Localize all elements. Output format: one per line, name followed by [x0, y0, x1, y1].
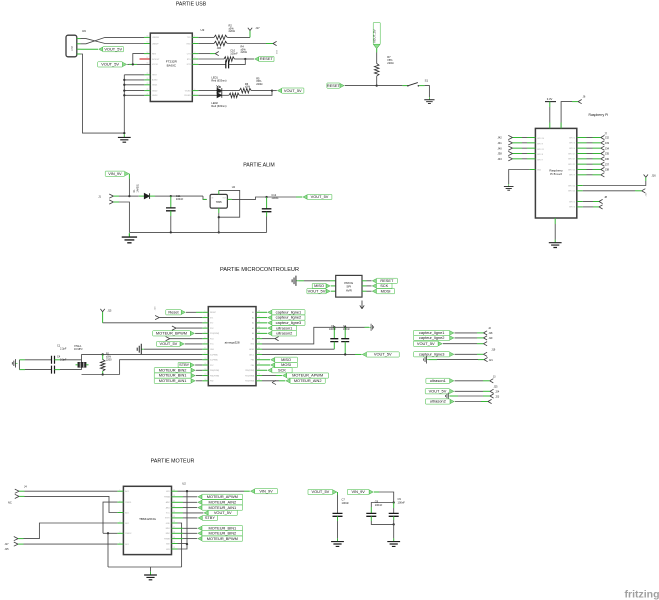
wire CTS to pin: [198, 53, 210, 55]
svg-text:2200: 2200: [106, 358, 112, 361]
svg-text:J37: J37: [605, 162, 610, 166]
ground RPi bottom: [549, 240, 562, 248]
wire R5 to junction: [239, 91, 272, 96]
svg-text:5: 5: [120, 532, 121, 534]
svg-text:24: 24: [173, 489, 175, 491]
ground moteur: [150, 567, 152, 572]
junction C8 branch: [393, 501, 395, 503]
svg-text:AGND: AGND: [152, 79, 158, 82]
svg-text:PGND2: PGND2: [125, 533, 131, 535]
svg-text:BIN2: BIN2: [166, 533, 170, 535]
wire RXD to R3: [198, 43, 214, 45]
wire row10 xtal2: [120, 360, 203, 375]
wire GPIO14 to J16 pin: [577, 185, 583, 187]
svg-text:VIN_9V: VIN_9V: [351, 489, 365, 494]
svg-text:VOUT_5V: VOUT_5V: [101, 62, 119, 67]
svg-text:RESET: RESET: [327, 83, 341, 88]
svg-text:Xx(PWM): Xx(PWM): [210, 354, 218, 356]
svg-text:GPIO 9: GPIO 9: [569, 175, 575, 177]
svg-text:Red (633nm): Red (633nm): [211, 79, 226, 83]
svg-text:STBY: STBY: [205, 515, 216, 520]
svg-text:GND1: GND1: [152, 85, 157, 87]
junction VM node: [186, 490, 188, 492]
wire gnd hdr A: [428, 359, 437, 361]
svg-text:MOTEUR_AIN1: MOTEUR_AIN1: [159, 378, 187, 383]
wire DTR to C10: [198, 63, 226, 65]
svg-text:VOUT_5V: VOUT_5V: [104, 46, 122, 51]
svg-text:VCCIO: VCCIO: [152, 64, 159, 66]
junction bus dots: [123, 79, 125, 81]
wire node to switch: [377, 85, 403, 87]
net label RESET switch: [340, 83, 344, 87]
svg-text:7805: 7805: [216, 200, 222, 204]
svg-text:2: 2: [194, 42, 195, 44]
svg-text:VOUT_5V: VOUT_5V: [372, 29, 376, 43]
junction cap C5 top: [333, 326, 335, 328]
ground RPi left: [504, 184, 514, 190]
svg-text:MISO: MISO: [281, 357, 291, 362]
svg-text:BO1: BO1: [125, 544, 129, 546]
net label RESET usb: [245, 58, 254, 60]
net label capteur_ligne3 hdr: [450, 352, 454, 356]
svg-text:2: 2: [120, 500, 121, 502]
svg-text:3: 3: [194, 52, 195, 54]
junction C12 node: [265, 196, 267, 198]
wire label to R7: [376, 49, 378, 53]
svg-text:J16: J16: [652, 174, 657, 178]
svg-text:J23: J23: [495, 395, 500, 398]
svg-text:Red (633nm): Red (633nm): [211, 104, 226, 108]
svg-text:24: 24: [147, 78, 149, 80]
svg-text:VM1: VM1: [166, 491, 170, 493]
svg-text:J38: J38: [605, 168, 610, 172]
capacitor C6: [344, 327, 346, 338]
svg-text:MOSI: MOSI: [281, 362, 291, 367]
svg-text:GPIO 14: GPIO 14: [568, 185, 575, 187]
svg-text:6: 6: [120, 542, 121, 544]
svg-text:ultrason2: ultrason2: [276, 331, 292, 336]
svg-text:GND: GND: [250, 344, 255, 346]
svg-text:6: 6: [194, 89, 195, 91]
pin J6 chevron: [578, 100, 582, 104]
IC PROG SPI AVR: [336, 275, 362, 297]
svg-text:22: 22: [173, 501, 175, 503]
ground reset switch: [424, 97, 434, 103]
wire row4 open pin: [176, 327, 202, 329]
svg-text:GND2: GND2: [152, 90, 157, 92]
svg-text:U3: U3: [201, 28, 205, 32]
svg-text:14: 14: [173, 542, 175, 544]
svg-text:MOTEUR_BIN2: MOTEUR_BIN2: [159, 367, 187, 372]
pin J32: [577, 137, 587, 139]
svg-text:PARTIE MICROCONTROLEUR: PARTIE MICROCONTROLEUR: [220, 267, 299, 273]
svg-text:22: 22: [258, 342, 260, 344]
svg-text:21: 21: [173, 506, 175, 508]
svg-text:16: 16: [147, 52, 149, 54]
wire R4 to reset node: [234, 58, 245, 60]
svg-text:XT1: XT1: [210, 317, 213, 319]
svg-text:25: 25: [147, 73, 149, 75]
USB connector U9: [66, 35, 77, 57]
svg-text:GPIO 3: GPIO 3: [569, 143, 575, 145]
wire C10 up to reset node: [229, 59, 246, 64]
net label RESET isp: [362, 280, 367, 282]
wire USB D- to FT232 USBDP (crossover): [81, 37, 145, 43]
svg-text:J25: J25: [494, 385, 499, 388]
net label MOTEUR_BIN2 moteur: [178, 532, 184, 534]
svg-text:20: 20: [258, 353, 260, 355]
svg-text:220Ω: 220Ω: [256, 82, 262, 86]
svg-text:capteur_ligne3: capteur_ligne3: [419, 351, 445, 356]
wire crystal vertical: [81, 354, 83, 369]
pin J37: [577, 163, 587, 165]
net label STBY moteur: [178, 517, 184, 519]
wire C7 to gnd: [337, 516, 339, 521]
junction PGND: [107, 532, 109, 534]
svg-text:GPIO 27: GPIO 27: [568, 159, 575, 161]
svg-text:19: 19: [173, 516, 175, 518]
wire row9 AVCC to VOUT label: [262, 353, 355, 355]
net label MOTEUR_AIN2 mcu: [262, 380, 279, 382]
wire bottom cap line: [19, 369, 25, 371]
svg-text:J15: J15: [5, 548, 10, 551]
vertical net label VOUT_5V reset pullup: [373, 44, 380, 49]
net label ultrason1 mcu: [262, 327, 267, 329]
svg-text:VOUT_5V: VOUT_5V: [429, 388, 447, 393]
svg-text:16 MHz: 16 MHz: [74, 348, 83, 351]
svg-text:19: 19: [258, 358, 260, 360]
resistor R4: [224, 57, 234, 62]
capacitor C1: [52, 356, 55, 364]
svg-text:3: 3: [205, 321, 206, 323]
svg-text:J42: J42: [498, 136, 503, 140]
svg-text:MOTEUR_AIN2: MOTEUR_AIN2: [294, 378, 322, 383]
ground USB section: [118, 134, 131, 142]
svg-text:GPIO 8: GPIO 8: [537, 154, 543, 156]
junction reset rail: [376, 84, 378, 86]
wire switch to ground: [419, 85, 425, 87]
svg-text:13: 13: [173, 547, 175, 549]
junction reset node: [244, 58, 246, 60]
resistor R1: [102, 354, 104, 359]
svg-text:1: 1: [205, 311, 206, 313]
net label VOUT_5V hdr B: [450, 389, 454, 393]
ground C8 C9: [387, 538, 400, 546]
svg-text:3: 3: [120, 511, 121, 513]
svg-text:100nF: 100nF: [343, 328, 350, 331]
svg-text:GPIO 22: GPIO 22: [568, 164, 575, 166]
wire regulator OUT: [227, 198, 232, 200]
svg-text:TEST: TEST: [152, 75, 158, 77]
svg-text:J38: J38: [498, 152, 503, 156]
capacitor C8: [370, 507, 372, 513]
net label VOUT_5V to FT232 VCCIO: [123, 62, 127, 66]
wire PGND1: [103, 502, 117, 533]
svg-text:100nF: 100nF: [375, 503, 383, 507]
IC Raspberry Pi B rev2: [535, 128, 576, 218]
svg-text:220Ω: 220Ω: [387, 61, 393, 65]
net label MOTEUR_APWM mcu: [262, 375, 276, 377]
svg-text:Raspberry Pi: Raspberry Pi: [589, 113, 609, 117]
net label VOUT_5V hdr A: [438, 342, 442, 346]
net label VIN_9V moteur: [250, 489, 254, 493]
svg-text:J40: J40: [498, 146, 503, 150]
svg-text:MOTEUR_BPWM: MOTEUR_BPWM: [207, 536, 238, 541]
svg-text:±5%: ±5%: [245, 85, 251, 89]
pin J34: [577, 147, 587, 149]
ground mcu left sideways: [137, 344, 144, 355]
svg-text:PGND1: PGND1: [125, 502, 131, 504]
junction VCCIO node: [132, 63, 134, 65]
svg-text:J24: J24: [495, 391, 500, 394]
svg-text:A2: A2: [252, 322, 254, 325]
svg-text:7: 7: [205, 342, 206, 344]
net label VIN_9V alim: [125, 172, 129, 176]
svg-text:18: 18: [258, 363, 260, 365]
FT232 ground bus wires: [124, 74, 144, 76]
svg-text:AIN2: AIN2: [166, 501, 170, 504]
net label VOUT_5V mcu: [180, 342, 184, 346]
wire row8 to C5: [262, 348, 334, 350]
svg-text:J4B: J4B: [217, 47, 222, 50]
regulator GND pin wire: [218, 208, 220, 213]
pin chevron CTS: [215, 52, 219, 56]
svg-text:PD4: PD4: [210, 338, 214, 340]
net label VOUT_5V from USB VBUS: [81, 48, 99, 50]
net label MOTEUR_BIN1: [191, 373, 195, 377]
svg-text:GPIO 10: GPIO 10: [537, 138, 544, 140]
net label capteur_ligne3 mcu: [262, 322, 267, 324]
svg-text:STBY: STBY: [165, 518, 170, 520]
svg-text:1: 1: [194, 36, 195, 38]
svg-text:15: 15: [173, 537, 175, 539]
svg-text:17: 17: [173, 527, 175, 529]
junction R1 top: [102, 353, 104, 355]
svg-text:capteur_ligne3: capteur_ligne3: [276, 320, 302, 325]
RPi bottom GND pin: [554, 218, 556, 224]
svg-text:VOUT_5V: VOUT_5V: [308, 288, 326, 293]
wire RTS to R4: [198, 58, 224, 60]
resistor R6: [239, 88, 251, 93]
svg-text:USB: USB: [70, 46, 74, 52]
svg-text:4: 4: [194, 57, 195, 59]
svg-text:J18: J18: [489, 332, 494, 335]
svg-text:6: 6: [205, 337, 206, 339]
pin J17 open header: [249, 31, 251, 38]
wire J4 pin1 to AO1: [25, 490, 118, 492]
svg-text:J19: J19: [491, 348, 496, 351]
wire GND moteur: [178, 523, 182, 567]
svg-text:MOTEUR_BIN2: MOTEUR_BIN2: [209, 530, 237, 535]
net label VIN_9V caps: [369, 490, 373, 494]
net label MOTEUR_BIN1 moteur: [178, 527, 184, 529]
wire C9 to gnd: [393, 516, 395, 520]
svg-text:USBDM: USBDM: [152, 37, 159, 39]
IC U2 TB6612FNG: [123, 486, 171, 554]
net label SCK mcu: [262, 369, 267, 371]
svg-text:J43: J43: [498, 157, 503, 161]
pin J15 up arrow: [102, 312, 104, 323]
net label MOTEUR_AIN1: [191, 379, 195, 383]
svg-text:GPIO 7: GPIO 7: [537, 160, 543, 162]
pin mark row14: [272, 380, 276, 384]
alim ground rail: [129, 231, 266, 233]
wire USB GND down: [81, 54, 125, 133]
svg-text:MOSI: MOSI: [381, 288, 391, 293]
resistor R7: [374, 64, 379, 77]
svg-text:J33: J33: [605, 141, 610, 145]
svg-text:VIN_9V: VIN_9V: [108, 171, 122, 176]
pin J38: [577, 168, 587, 170]
svg-text:capteur_ligne2: capteur_ligne2: [276, 315, 302, 320]
net label VOUT_5V avcc: [362, 352, 366, 356]
ground hdr A: [424, 356, 429, 364]
svg-text:26: 26: [258, 321, 260, 323]
svg-text:U2: U2: [182, 481, 186, 485]
ground bus vertical: [123, 75, 125, 133]
svg-text:AIN1: AIN1: [166, 506, 170, 509]
svg-text:PD2: PD2: [210, 328, 214, 330]
wire J1 pin1 to diode: [119, 195, 129, 197]
svg-text:VM3: VM3: [166, 549, 170, 551]
svg-text:PD3(PWM): PD3(PWM): [210, 333, 219, 335]
svg-text:16: 16: [173, 532, 175, 534]
svg-text:BASIC: BASIC: [167, 63, 177, 67]
capacitor C4: [52, 366, 55, 374]
wire row8 to ground: [144, 348, 202, 350]
svg-text:21: 21: [258, 347, 260, 349]
wire VIN to C9: [374, 491, 379, 493]
svg-text:J35: J35: [605, 152, 610, 156]
svg-text:GND: GND: [537, 169, 542, 171]
svg-text:17: 17: [147, 57, 149, 59]
svg-text:RESET: RESET: [260, 56, 274, 61]
FT232 pin stubs left: [144, 74, 150, 76]
svg-text:24: 24: [258, 332, 260, 334]
net label MOTEUR_AIN2 moteur: [178, 501, 184, 503]
junction C11 node: [170, 195, 172, 197]
capacitor C5: [333, 327, 335, 338]
svg-text:AVR: AVR: [346, 288, 353, 292]
svg-text:TXLED: TXLED: [184, 90, 191, 92]
regulator U4 7805: [210, 194, 227, 208]
red wire 3V3OUT: [140, 58, 151, 60]
wire R3 to pin: [227, 43, 266, 45]
svg-text:5: 5: [194, 63, 195, 65]
net label VOUT_5V isp: [326, 289, 330, 293]
svg-text:3V3OUT: 3V3OUT: [152, 59, 160, 61]
wire LED2 to R5: [222, 94, 229, 96]
RPi left GND pin wire: [529, 169, 535, 171]
wire OUT to label: [267, 196, 296, 198]
svg-text:A1: A1: [252, 316, 254, 319]
pin below ISP: [361, 301, 363, 309]
svg-text:100nF: 100nF: [398, 500, 406, 504]
svg-text:PB3: PB3: [251, 360, 254, 362]
svg-text:STBY: STBY: [179, 362, 190, 367]
net label capteur_ligne1 mcu: [262, 311, 267, 313]
LED1: [217, 88, 222, 93]
moteur ground rail: [108, 566, 182, 568]
svg-text:220Ω: 220Ω: [241, 50, 247, 54]
net label MOTEUR_BPWM moteur: [178, 538, 184, 540]
net label STBY: [190, 363, 194, 367]
svg-text:Reset: Reset: [168, 309, 179, 314]
svg-text:SCK: SCK: [380, 283, 388, 288]
svg-text:J32: J32: [605, 136, 610, 140]
svg-text:A5: A5: [252, 337, 254, 340]
svg-text:VOUT_5V: VOUT_5V: [311, 489, 329, 494]
svg-text:14: 14: [147, 36, 149, 38]
wire R7 to reset rail: [376, 76, 378, 86]
svg-text:2.2pF: 2.2pF: [60, 348, 67, 351]
junction C6 bottom: [344, 353, 346, 355]
net label capteur_ligne2 hdr: [450, 336, 454, 340]
svg-text:7: 7: [194, 94, 195, 96]
crystal XTAL1: [78, 362, 86, 367]
svg-text:2.2pF: 2.2pF: [60, 359, 67, 362]
svg-text:MOTEUR_BPWM: MOTEUR_BPWM: [156, 331, 187, 336]
svg-text:18: 18: [147, 63, 149, 65]
svg-text:J19: J19: [489, 337, 494, 340]
svg-text:PB0(PWM): PB0(PWM): [210, 370, 219, 372]
wire TXD to R2: [198, 36, 214, 38]
svg-text:PARTIE ALIM: PARTIE ALIM: [243, 162, 275, 168]
capacitor C9: [393, 503, 395, 509]
svg-text:20: 20: [173, 511, 175, 513]
crystal circuit ground: [12, 359, 17, 367]
wire C8 bottom: [370, 516, 372, 521]
svg-text:100nF: 100nF: [230, 51, 238, 55]
svg-text:GPIO 2: GPIO 2: [569, 137, 575, 139]
svg-text:J21: J21: [489, 359, 494, 362]
svg-text:2: 2: [205, 316, 206, 318]
ISP header ground: [292, 276, 298, 286]
net label MOTEUR_APWM moteur: [178, 496, 184, 498]
svg-text:AVCC: AVCC: [249, 353, 255, 356]
svg-text:AO2: AO2: [125, 511, 129, 514]
svg-text:12: 12: [205, 368, 207, 370]
wire to C7: [337, 492, 339, 495]
wire PGND to rail: [107, 533, 109, 567]
svg-text:RXD: RXD: [187, 43, 192, 45]
svg-text:100nF: 100nF: [329, 328, 336, 331]
wire VCCIO: [127, 63, 129, 65]
svg-text:GPIO 10: GPIO 10: [568, 169, 575, 171]
wire row6 open pin: [170, 338, 203, 340]
ground alim: [122, 233, 137, 243]
pin GPIO5 wire: [577, 201, 583, 203]
svg-text:100nF: 100nF: [342, 501, 350, 505]
wire gnd split vertical: [18, 360, 20, 370]
wire VM2: [178, 543, 188, 545]
wire J4 pin2 to AO2: [25, 496, 118, 512]
svg-text:PWMA: PWMA: [164, 496, 170, 499]
atmega pin stubs: [202, 311, 208, 313]
wire top cap line: [19, 359, 25, 361]
wire diode to C11 node: [150, 195, 155, 197]
svg-text:J15: J15: [108, 310, 113, 313]
wire row9 crystal rail: [82, 353, 203, 355]
wire C4 to crystal: [55, 369, 61, 371]
svg-text:TXD: TXD: [187, 37, 191, 39]
pin J36: [577, 158, 587, 160]
svg-text:MISO: MISO: [314, 283, 324, 288]
svg-text:11: 11: [205, 363, 207, 365]
net label VOUT_5V alim out: [303, 195, 307, 199]
svg-text:21: 21: [147, 94, 149, 96]
svg-text:PB5(PWM): PB5(PWM): [245, 370, 254, 372]
